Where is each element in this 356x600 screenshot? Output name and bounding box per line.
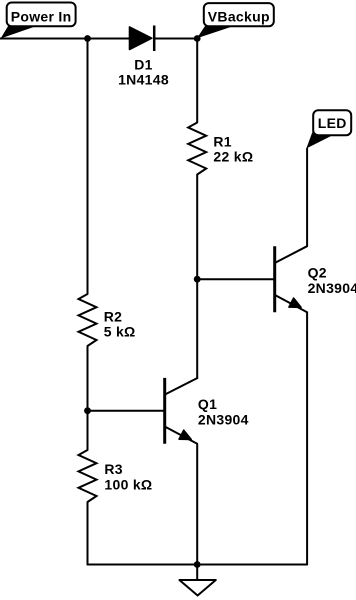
wire left vertical bottom (R3 to bottom rail): [87, 502, 89, 565]
wire bottom rail: [88, 564, 308, 566]
label R1 22 kOhm: [213, 133, 253, 164]
node junction dot Q1 base: [84, 407, 91, 414]
transistor Q1 emitter arrow: [179, 430, 191, 439]
wire Q1 base (left node to bar): [88, 410, 165, 412]
wire left vertical lower (node to R3): [87, 411, 89, 450]
svg-text:2N3904: 2N3904: [308, 280, 356, 296]
transistor Q1 emitter: [165, 427, 198, 565]
transistor Q1 bar: [163, 378, 166, 444]
resistor R1: [188, 123, 206, 175]
label Q1 2N3904: [198, 396, 249, 427]
transistor Q2 emitter arrow: [289, 298, 301, 307]
wire middle vertical (Q2 base node to Q1 collector): [196, 279, 198, 378]
svg-text:2N3904: 2N3904: [198, 411, 249, 427]
svg-text:5 kΩ: 5 kΩ: [104, 324, 136, 340]
svg-text:LED: LED: [318, 115, 347, 131]
label D1 1N4148: [118, 56, 169, 87]
flag Power In: [1, 3, 76, 39]
svg-text:1N4148: 1N4148: [118, 72, 169, 88]
wire left vertical upper (top rail to R2): [87, 39, 89, 295]
diode D1: [130, 26, 155, 52]
label R2 5 kOhm: [104, 308, 136, 339]
svg-text:R3: R3: [104, 461, 123, 477]
flag LED: [306, 110, 351, 148]
ground: [179, 565, 215, 596]
svg-text:Q2: Q2: [308, 265, 327, 281]
resistor R2: [79, 294, 97, 346]
wire left vertical middle (R2 to Q1 base node): [87, 346, 89, 411]
transistor Q1 collector: [165, 378, 198, 395]
svg-text:Power In: Power In: [11, 9, 72, 25]
svg-text:R2: R2: [104, 308, 123, 324]
node junction dot top-left: [84, 35, 91, 42]
label Q2 2N3904: [308, 265, 356, 296]
svg-text:VBackup: VBackup: [208, 9, 270, 25]
transistor Q2 emitter: [275, 295, 307, 565]
svg-text:Q1: Q1: [198, 396, 217, 412]
node junction dot Q2 base: [194, 276, 201, 283]
flag VBackup: [197, 3, 274, 38]
svg-text:100 kΩ: 100 kΩ: [104, 476, 152, 492]
wire middle vertical (VBackup node to R1): [196, 39, 198, 123]
label R3 100 kOhm: [104, 461, 152, 492]
svg-text:22 kΩ: 22 kΩ: [213, 149, 253, 165]
svg-text:D1: D1: [134, 56, 153, 72]
transistor Q2 collector: [275, 149, 307, 264]
svg-text:R1: R1: [213, 133, 232, 149]
node junction dot ground: [194, 561, 201, 568]
transistor Q2 bar: [273, 246, 276, 312]
wire diode cathode to VBackup node: [154, 38, 197, 40]
resistor R3: [79, 450, 97, 502]
wire middle vertical (R1 to Q2 base node): [196, 175, 198, 280]
node junction dot VBackup: [194, 35, 201, 42]
wire top rail (Power In to diode anode): [0, 38, 130, 40]
wire Q2 base (middle node to bar): [197, 278, 275, 280]
